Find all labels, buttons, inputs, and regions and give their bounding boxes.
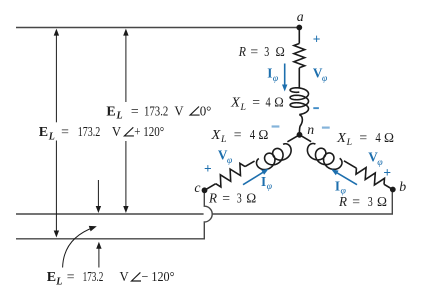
svg-text:L: L — [55, 277, 62, 288]
svg-text:φ: φ — [377, 157, 383, 168]
svg-text:E: E — [47, 270, 56, 285]
svg-text:+: + — [204, 161, 212, 176]
svg-text:+: + — [313, 31, 321, 46]
svg-text:φ: φ — [273, 73, 279, 84]
svg-text:c: c — [194, 180, 200, 195]
svg-text:Ω: Ω — [276, 44, 285, 59]
svg-text:0°: 0° — [200, 103, 212, 118]
svg-text:E: E — [39, 125, 48, 140]
svg-text:+: + — [383, 165, 391, 180]
svg-text:+ 120°: + 120° — [134, 124, 164, 139]
svg-text:=: = — [252, 95, 260, 110]
svg-text:V: V — [174, 103, 183, 118]
svg-text:a: a — [297, 9, 304, 24]
svg-text:n: n — [307, 122, 314, 137]
svg-text:Ω: Ω — [246, 190, 256, 205]
svg-text:b: b — [399, 179, 406, 194]
svg-text:173.2: 173.2 — [144, 103, 168, 118]
svg-text:φ: φ — [341, 186, 347, 197]
svg-text:L: L — [116, 111, 123, 122]
svg-text:φ: φ — [322, 73, 328, 84]
svg-text:L: L — [220, 134, 226, 145]
svg-text:R: R — [238, 44, 247, 59]
svg-text:φ: φ — [227, 155, 233, 166]
svg-text:=: = — [234, 127, 242, 142]
svg-text:Ω: Ω — [377, 194, 387, 209]
svg-text:X: X — [210, 127, 220, 142]
svg-text:I: I — [335, 178, 340, 193]
svg-text:I: I — [261, 174, 266, 189]
svg-text:3: 3 — [237, 190, 242, 205]
svg-text:X: X — [336, 130, 346, 145]
svg-text:3: 3 — [264, 44, 269, 59]
svg-text:V: V — [112, 124, 121, 139]
svg-text:V: V — [120, 269, 129, 284]
svg-text:=: = — [359, 130, 367, 145]
svg-text:X: X — [230, 95, 240, 110]
svg-text:4: 4 — [266, 95, 271, 110]
svg-text:=: = — [250, 44, 258, 59]
svg-text:=: = — [222, 190, 230, 205]
svg-text:173.2: 173.2 — [83, 269, 104, 284]
svg-text:L: L — [346, 137, 352, 148]
svg-text:=: = — [61, 124, 69, 139]
svg-text:=: = — [67, 269, 75, 284]
svg-text:L: L — [240, 102, 246, 113]
svg-text:3: 3 — [368, 194, 373, 209]
svg-text:4: 4 — [250, 127, 255, 142]
svg-text:=: = — [352, 194, 360, 209]
svg-text:173.2: 173.2 — [78, 124, 101, 139]
svg-text:Ω: Ω — [274, 95, 284, 110]
svg-text:− 120°: − 120° — [142, 269, 175, 284]
svg-text:Ω: Ω — [384, 130, 394, 145]
svg-text:R: R — [208, 190, 217, 205]
svg-text:I: I — [267, 66, 272, 81]
svg-text:φ: φ — [267, 181, 273, 192]
svg-text:E: E — [106, 104, 115, 119]
svg-text:4: 4 — [375, 130, 380, 145]
svg-text:L: L — [48, 131, 55, 142]
svg-text:Ω: Ω — [258, 127, 268, 142]
svg-text:=: = — [131, 103, 139, 118]
